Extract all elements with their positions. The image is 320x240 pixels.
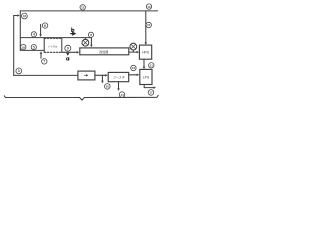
svg-text:11: 11 [150, 64, 153, 68]
svg-text:LPS: LPS [143, 75, 150, 79]
wire duct top / line A to vaporizer [20, 38, 91, 46]
svg-text:9: 9 [67, 47, 69, 51]
wire arrowhead into long box [90, 45, 93, 48]
wire recirculation riser [13, 16, 15, 76]
node 4 [31, 32, 36, 37]
node 13 [131, 65, 136, 70]
box HPS [139, 45, 151, 59]
node 3 [16, 68, 22, 74]
wire dashed box to long box [62, 51, 78, 53]
node 18 inlet arrow [14, 15, 19, 17]
svg-text:t-t-fla: t-t-fla [48, 44, 57, 48]
fan symbol circle-X on line A [84, 38, 86, 40]
wire HPS to LPS [143, 59, 145, 67]
fan symbol circle-X before HPS [132, 50, 134, 53]
svg-text:17: 17 [149, 91, 153, 95]
node 9 [65, 45, 71, 51]
box LPS [140, 69, 152, 84]
bottom underbrace [4, 95, 158, 100]
reference numeral digits for nodes 18,12,16,15,11,13,17,14,10,8,6,4,19,5,7,9,3 [18, 5, 153, 97]
box booster [108, 72, 129, 81]
svg-text:13: 13 [132, 66, 136, 70]
svg-text:5: 5 [33, 45, 35, 49]
node a stream label [66, 58, 68, 61]
node 6 [42, 23, 47, 28]
wire top line of enclosure [20, 10, 157, 12]
node 10 [105, 84, 111, 90]
capacitor-like dashed box (reformer) [44, 38, 62, 52]
svg-text:4: 4 [33, 33, 35, 37]
node 7 feed arrow [40, 53, 42, 58]
svg-text:18: 18 [23, 14, 27, 18]
svg-text:3: 3 [18, 69, 20, 73]
wire left edge of enclosure [19, 11, 21, 51]
svg-text:16: 16 [147, 5, 151, 9]
wire recirculation bottom run [14, 74, 78, 76]
svg-text:6: 6 [44, 24, 46, 28]
svg-text:12: 12 [81, 6, 85, 10]
node 16 [146, 4, 151, 9]
node 15 [146, 22, 151, 27]
node 7 [42, 59, 47, 64]
node 5 [31, 45, 36, 50]
svg-text:10: 10 [106, 85, 110, 89]
wire LPS exhaust out [144, 85, 154, 88]
svg-text:14: 14 [120, 93, 124, 97]
node 17 [148, 90, 154, 96]
node 19 [21, 44, 26, 49]
wire top line down to HPS [145, 11, 147, 44]
node b stream label [72, 28, 74, 32]
label arrow inside small box [84, 75, 87, 77]
node junction with branch 10 [102, 75, 103, 76]
node 14 [119, 92, 125, 98]
node a stream tap [66, 53, 69, 56]
node 6 feed arrow [40, 24, 42, 35]
svg-text:19: 19 [22, 45, 26, 49]
svg-text:ブースタ: ブースタ [113, 75, 126, 79]
node 18 [22, 13, 28, 19]
long box vaporizer [80, 48, 129, 55]
node 11 [149, 63, 154, 68]
wire long box to HPS [129, 51, 138, 53]
svg-text:改質器: 改質器 [99, 49, 108, 54]
box condenser (small box on return line) [78, 71, 95, 80]
wire booster to LPS [129, 74, 138, 76]
wire small box to booster [95, 74, 106, 76]
svg-text:HPS: HPS [142, 51, 150, 55]
svg-text:15: 15 [147, 23, 151, 27]
wire booster drain branch 14 [118, 82, 120, 90]
svg-text:7: 7 [43, 60, 45, 64]
circled reference numerals [16, 4, 154, 97]
node 12 [80, 5, 85, 10]
wire duct bottom [20, 49, 44, 51]
node 8 [88, 32, 93, 37]
